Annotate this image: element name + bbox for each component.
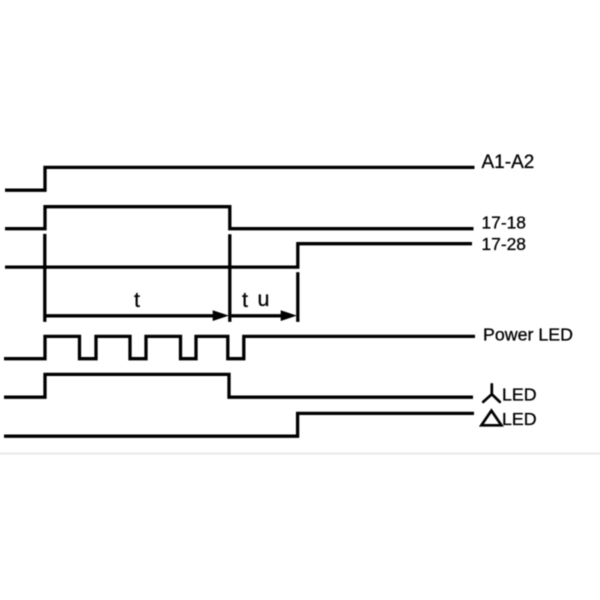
- svg-text:17-18: 17-18: [482, 213, 526, 233]
- svg-text:LED: LED: [502, 385, 537, 405]
- svg-text:t: t: [134, 288, 140, 312]
- svg-text:Power LED: Power LED: [483, 325, 573, 345]
- svg-text:A1-A2: A1-A2: [482, 152, 535, 173]
- svg-text:LED: LED: [502, 409, 537, 429]
- svg-text:u: u: [258, 287, 270, 311]
- svg-text:t: t: [242, 288, 248, 312]
- svg-text:17-28: 17-28: [482, 234, 526, 254]
